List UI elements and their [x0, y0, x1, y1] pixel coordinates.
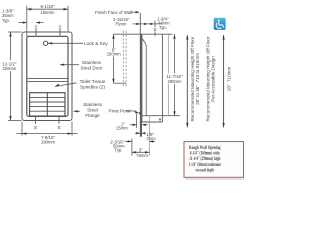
- S tick on top line: [154, 31, 156, 36]
- faint wall cavity line: [167, 34, 169, 116]
- spindle centerline ticks bottom: [35, 116, 37, 124]
- svg-text:Toilet Tissue: Toilet Tissue: [80, 79, 106, 84]
- open door bar below cabinet: [140, 122, 142, 137]
- pivot dot: [139, 112, 141, 114]
- mounting height dim line 28-36: [186, 35, 188, 127]
- svg-text:S: S: [57, 125, 60, 131]
- side view cabinet top extension line: [114, 33, 173, 35]
- svg-text:Steel: Steel: [87, 108, 98, 113]
- svg-text:155mm: 155mm: [41, 10, 55, 15]
- 1/8 inch 3mm dim: [135, 132, 140, 134]
- svg-text:Stainless: Stainless: [83, 102, 103, 107]
- svg-text:Typ.: Typ.: [115, 147, 123, 152]
- svg-text:S: S: [58, 25, 61, 31]
- svg-text:Per Accessible Design: Per Accessible Design: [211, 56, 216, 102]
- pivot point leader: [109, 109, 132, 114]
- accessible mounting height dim line: [223, 35, 225, 127]
- svg-text:Typ.: Typ.: [2, 18, 10, 23]
- tissue center divider: [46, 93, 48, 116]
- flange outer rectangle (front view): [22, 32, 72, 121]
- red label: 28 inch 710mm: [227, 67, 232, 92]
- bottom width dimension 7-9/16 190mm: [21, 122, 23, 136]
- cabinet bottom line: [140, 115, 180, 117]
- flange/door section bar (grey): [140, 34, 142, 122]
- svg-text:290mm: 290mm: [168, 79, 182, 84]
- svg-text:recessed depth: recessed depth: [196, 167, 215, 173]
- side view top dim row: 2-15/16 / 1-3/4: [113, 17, 130, 26]
- svg-text:Finish Face of Wall: Finish Face of Wall: [95, 10, 132, 15]
- rough wall opening red box: [184, 142, 244, 178]
- door inner rectangle (front view): [27, 36, 68, 116]
- svg-text:S: S: [34, 25, 37, 31]
- 3 inch 76mm dim: [132, 151, 149, 153]
- finish face of wall label: [95, 10, 132, 15]
- svg-text:Lock & Key: Lock & Key: [84, 41, 108, 46]
- stainless steel door leader: [60, 64, 79, 66]
- S labels bottom: [34, 125, 61, 131]
- small arrow marker at flange bottom: [159, 119, 161, 122]
- lock & key symbol: [43, 41, 47, 45]
- svg-text:320mm: 320mm: [2, 66, 16, 71]
- svg-text:3": 3": [139, 147, 143, 152]
- svg-text:75mm: 75mm: [115, 21, 127, 26]
- svg-text:6-1/16": 6-1/16": [40, 4, 54, 9]
- cabinet front slant: [142, 39, 146, 45]
- cabinet back line: [161, 34, 163, 122]
- svg-text:28" to 36" 710 to 915mm: 28" to 36" 710 to 915mm: [195, 53, 200, 105]
- svg-text:Flange: Flange: [85, 113, 100, 118]
- flange bottom line: [140, 121, 162, 123]
- accessibility icon: [214, 18, 226, 30]
- svg-text:Stainless: Stainless: [82, 60, 102, 65]
- stainless steel flange leader: [74, 110, 81, 112]
- ticks for 3 inch dim: [131, 139, 133, 156]
- cabinet interior line: [145, 45, 147, 116]
- left height dimension 12-1/2 320mm: [8, 31, 22, 33]
- svg-text:Spindles (2): Spindles (2): [80, 85, 105, 90]
- toilet tissue spindles leader: [55, 83, 77, 87]
- lock & key leader: [48, 42, 83, 44]
- 1-3/8 35mm Typ dimension: [2, 8, 14, 23]
- spindle centerline ticks top: [35, 29, 37, 36]
- 2-3/16 55mm Typ label: [110, 139, 125, 152]
- S labels top: [34, 25, 61, 31]
- door bottom edge lines: [27, 78, 68, 80]
- 1 inch 25mm dim: [116, 122, 128, 131]
- svg-text:76mm: 76mm: [136, 153, 148, 158]
- svg-text:S: S: [34, 125, 37, 131]
- 6 inch 150mm dim with phantom door lines: [113, 34, 115, 48]
- svg-text:28" 710mm: 28" 710mm: [227, 67, 232, 92]
- red label: recommended mounting height accessible: [206, 36, 216, 121]
- svg-text:Typ.: Typ.: [159, 25, 167, 30]
- svg-text:190mm: 190mm: [41, 140, 55, 145]
- top width dimension 6-1/16 155mm: [26, 6, 28, 37]
- tissue roll lines: [30, 96, 65, 98]
- pivot vertical tick: [136, 114, 138, 128]
- svg-text:25mm: 25mm: [116, 126, 128, 131]
- tissue roll stack box: [30, 93, 65, 116]
- svg-text:Steel Door: Steel Door: [80, 66, 103, 71]
- svg-text:3mm: 3mm: [146, 136, 156, 141]
- svg-text:150mm: 150mm: [107, 51, 121, 56]
- 11-7/16 290mm height dim: [174, 34, 176, 73]
- red label: recommended mounting height off floor: [190, 36, 200, 121]
- wall face line (side view): [139, 13, 141, 137]
